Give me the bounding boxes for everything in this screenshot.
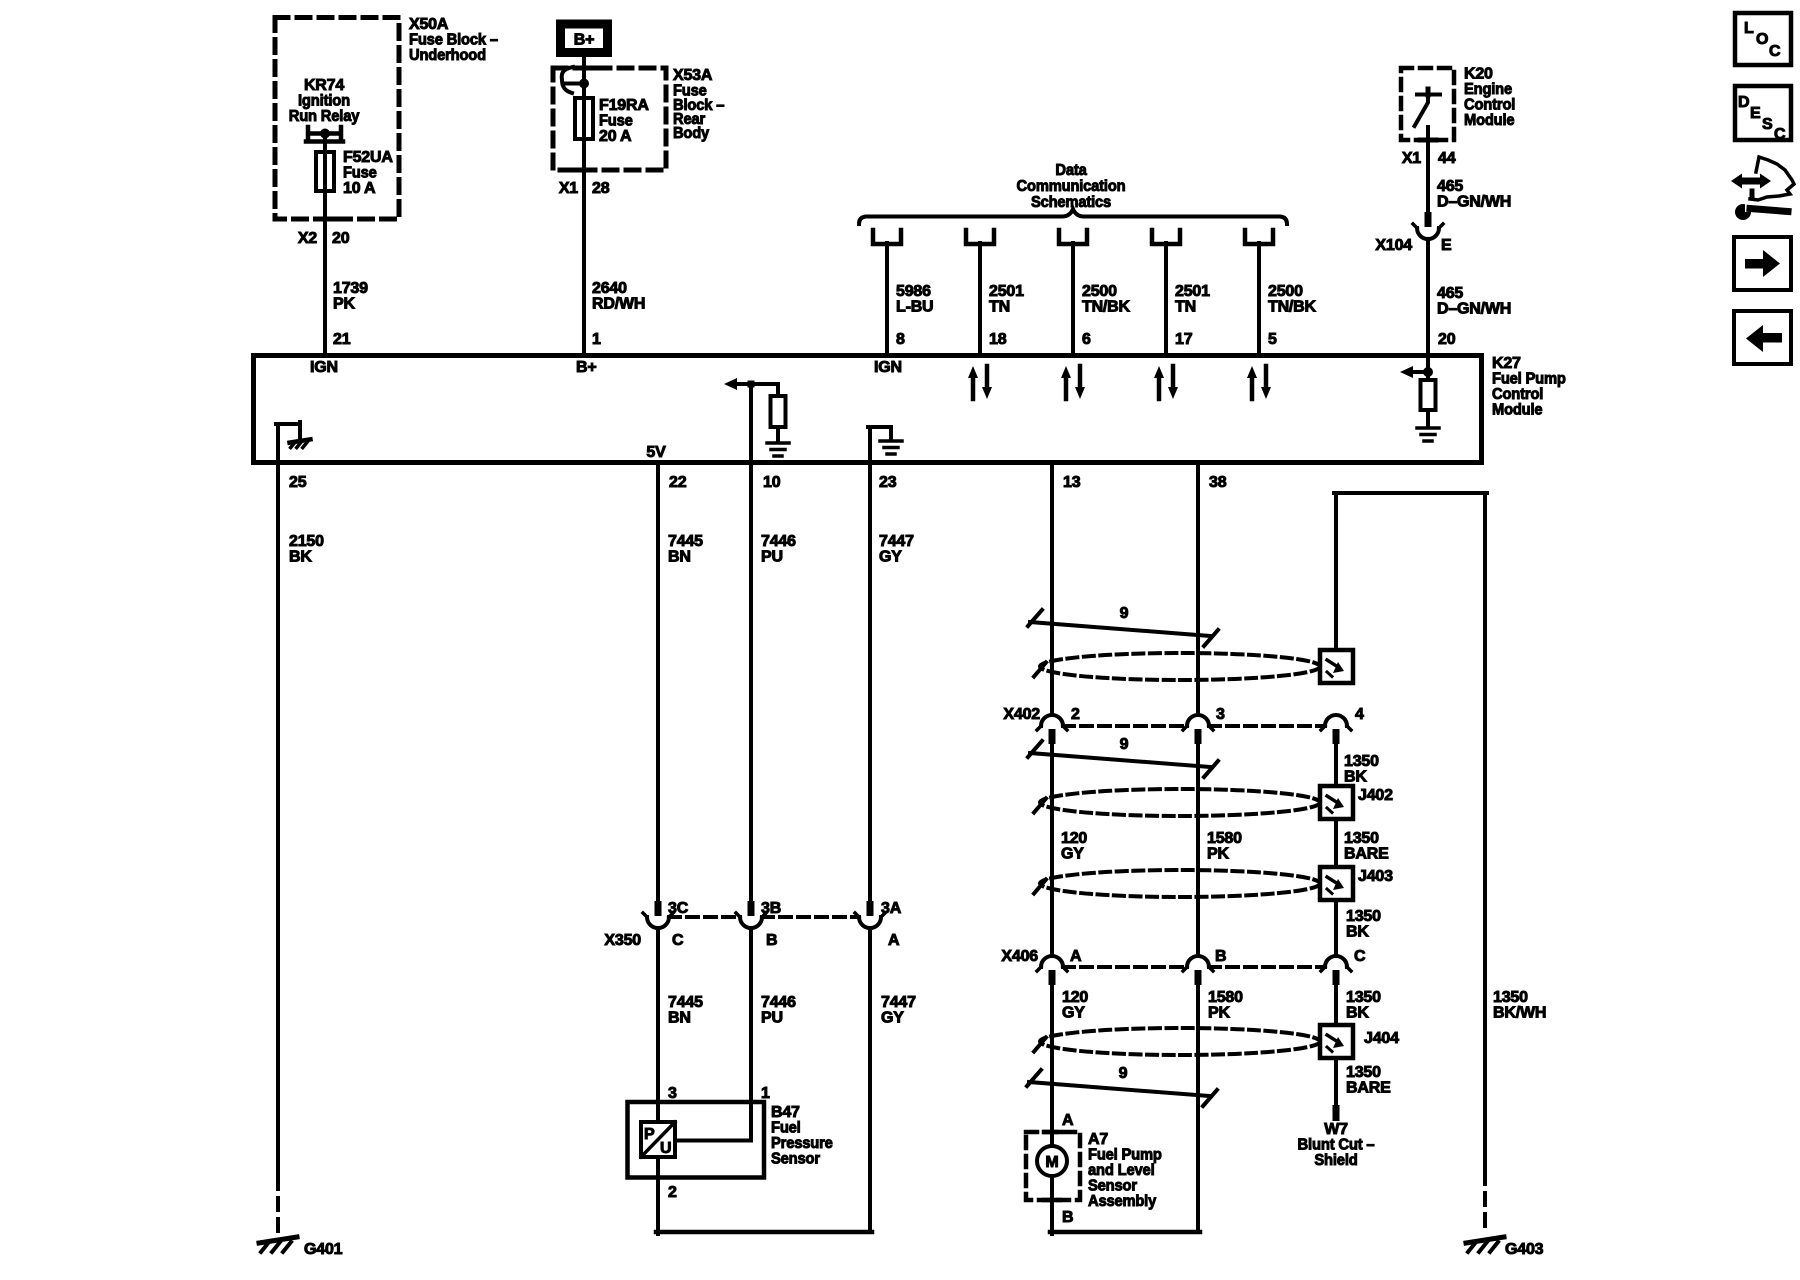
svg-text:Ignition: Ignition — [298, 93, 350, 110]
svg-text:1350: 1350 — [1344, 753, 1379, 770]
svg-text:Engine: Engine — [1464, 81, 1512, 98]
svg-text:1739: 1739 — [333, 280, 368, 297]
svg-text:Run Relay: Run Relay — [289, 108, 360, 125]
svg-text:Sensor: Sensor — [1088, 1178, 1137, 1195]
svg-text:GY: GY — [1062, 1005, 1085, 1022]
svg-text:C: C — [1354, 948, 1366, 965]
svg-text:18: 18 — [989, 331, 1007, 348]
svg-text:G403: G403 — [1505, 1241, 1544, 1258]
svg-text:L-BU: L-BU — [896, 299, 933, 316]
svg-text:120: 120 — [1062, 989, 1088, 1006]
svg-text:BK: BK — [1346, 924, 1369, 941]
svg-text:3: 3 — [1216, 706, 1225, 723]
svg-text:J402: J402 — [1358, 787, 1393, 804]
svg-text:X402: X402 — [1003, 706, 1040, 723]
svg-text:X1: X1 — [1402, 150, 1421, 167]
svg-text:10 A: 10 A — [343, 180, 376, 197]
svg-text:7447: 7447 — [879, 533, 914, 550]
svg-text:22: 22 — [669, 474, 687, 491]
svg-text:7445: 7445 — [668, 533, 703, 550]
svg-text:1580: 1580 — [1207, 830, 1242, 847]
svg-text:10: 10 — [763, 474, 781, 491]
svg-text:2501: 2501 — [989, 283, 1024, 300]
svg-text:2500: 2500 — [1268, 283, 1303, 300]
svg-text:17: 17 — [1175, 331, 1193, 348]
svg-text:Control: Control — [1492, 386, 1543, 403]
svg-text:B+: B+ — [574, 32, 595, 49]
svg-text:2: 2 — [668, 1184, 677, 1201]
svg-text:X406: X406 — [1001, 948, 1038, 965]
svg-text:O: O — [1756, 31, 1768, 48]
svg-text:28: 28 — [592, 180, 610, 197]
svg-text:38: 38 — [1209, 474, 1227, 491]
svg-text:7445: 7445 — [668, 994, 703, 1011]
svg-text:20: 20 — [332, 230, 350, 247]
svg-text:4: 4 — [1355, 706, 1364, 723]
svg-text:PK: PK — [1207, 846, 1229, 863]
svg-text:13: 13 — [1063, 474, 1081, 491]
svg-text:X2: X2 — [298, 230, 317, 247]
svg-text:6: 6 — [1082, 331, 1091, 348]
svg-text:7446: 7446 — [761, 533, 796, 550]
svg-text:1: 1 — [761, 1085, 770, 1102]
svg-text:F52UA: F52UA — [343, 149, 393, 166]
svg-text:A: A — [1070, 948, 1082, 965]
svg-text:465: 465 — [1437, 178, 1463, 195]
svg-text:J403: J403 — [1358, 868, 1393, 885]
svg-text:TN: TN — [989, 299, 1010, 316]
svg-text:M: M — [1045, 1154, 1058, 1171]
svg-text:25: 25 — [289, 474, 307, 491]
svg-text:GY: GY — [879, 549, 902, 566]
svg-text:IGN: IGN — [874, 359, 902, 376]
svg-text:A: A — [888, 932, 900, 949]
svg-text:RD/WH: RD/WH — [592, 296, 645, 313]
svg-text:X53A: X53A — [673, 67, 713, 84]
svg-text:Communication: Communication — [1017, 178, 1126, 195]
svg-text:KR74: KR74 — [304, 77, 344, 94]
svg-text:44: 44 — [1438, 150, 1456, 167]
svg-text:BN: BN — [668, 1010, 691, 1027]
svg-text:E: E — [1441, 237, 1452, 254]
svg-text:B47: B47 — [771, 1104, 800, 1121]
svg-text:GY: GY — [1061, 846, 1084, 863]
svg-text:X50A: X50A — [409, 16, 449, 33]
svg-text:B: B — [1215, 948, 1226, 965]
svg-text:W7: W7 — [1324, 1121, 1348, 1138]
svg-text:21: 21 — [333, 331, 351, 348]
svg-text:Module: Module — [1464, 112, 1515, 129]
svg-text:2150: 2150 — [289, 533, 324, 550]
svg-text:F19RA: F19RA — [599, 97, 649, 114]
svg-text:TN/BK: TN/BK — [1082, 299, 1131, 316]
svg-text:K27: K27 — [1492, 355, 1521, 372]
svg-text:Fuel: Fuel — [771, 1120, 801, 1137]
svg-text:U: U — [660, 1140, 671, 1157]
svg-text:D–GN/WH: D–GN/WH — [1437, 301, 1511, 318]
svg-text:1350: 1350 — [1346, 1064, 1381, 1081]
svg-text:BK: BK — [1344, 769, 1367, 786]
svg-text:8: 8 — [896, 331, 905, 348]
svg-text:Body: Body — [673, 125, 709, 142]
svg-text:Pressure: Pressure — [771, 1135, 833, 1152]
svg-text:BARE: BARE — [1344, 846, 1389, 863]
svg-text:X350: X350 — [604, 932, 641, 949]
svg-text:Control: Control — [1464, 97, 1515, 114]
svg-text:E: E — [1750, 105, 1761, 122]
svg-text:BK: BK — [1346, 1005, 1369, 1022]
svg-text:BK/WH: BK/WH — [1493, 1005, 1546, 1022]
svg-text:C: C — [1769, 43, 1781, 60]
svg-text:Module: Module — [1492, 402, 1543, 419]
svg-text:5V: 5V — [646, 444, 666, 461]
svg-text:D–GN/WH: D–GN/WH — [1437, 194, 1511, 211]
svg-text:23: 23 — [879, 474, 897, 491]
svg-text:C: C — [672, 932, 684, 949]
svg-text:465: 465 — [1437, 285, 1463, 302]
svg-text:3C: 3C — [668, 900, 689, 917]
svg-text:7447: 7447 — [881, 994, 916, 1011]
svg-text:G401: G401 — [304, 1241, 343, 1258]
svg-text:B+: B+ — [576, 359, 597, 376]
svg-text:2: 2 — [1071, 706, 1080, 723]
svg-text:BN: BN — [668, 549, 691, 566]
svg-text:TN: TN — [1175, 299, 1196, 316]
svg-text:1350: 1350 — [1493, 989, 1528, 1006]
svg-text:A: A — [1062, 1112, 1074, 1129]
svg-text:S: S — [1762, 116, 1773, 133]
svg-text:9: 9 — [1119, 1065, 1128, 1082]
svg-text:Fuse Block –: Fuse Block – — [409, 32, 498, 49]
svg-text:1: 1 — [592, 331, 601, 348]
svg-text:D: D — [1738, 94, 1749, 111]
svg-text:X104: X104 — [1375, 237, 1412, 254]
svg-text:Underhood: Underhood — [409, 47, 486, 64]
svg-text:C: C — [1774, 126, 1786, 143]
svg-text:2501: 2501 — [1175, 283, 1210, 300]
svg-text:Shield: Shield — [1314, 1152, 1357, 1169]
svg-text:7446: 7446 — [761, 994, 796, 1011]
svg-text:1350: 1350 — [1346, 989, 1381, 1006]
svg-text:IGN: IGN — [310, 359, 338, 376]
svg-text:BK: BK — [289, 549, 312, 566]
svg-text:Assembly: Assembly — [1088, 1193, 1156, 1210]
svg-text:1350: 1350 — [1344, 830, 1379, 847]
svg-text:BARE: BARE — [1346, 1080, 1391, 1097]
svg-text:Data: Data — [1055, 162, 1086, 179]
svg-text:A7: A7 — [1088, 1131, 1108, 1148]
svg-text:2640: 2640 — [592, 280, 627, 297]
svg-text:J404: J404 — [1364, 1030, 1399, 1047]
svg-text:GY: GY — [881, 1010, 904, 1027]
svg-text:PK: PK — [1208, 1005, 1230, 1022]
svg-text:Fuse: Fuse — [599, 113, 633, 130]
svg-text:PK: PK — [333, 296, 355, 313]
svg-text:B: B — [1062, 1209, 1073, 1226]
svg-text:P: P — [644, 1126, 655, 1143]
svg-text:9: 9 — [1120, 605, 1129, 622]
svg-text:2500: 2500 — [1082, 283, 1117, 300]
svg-text:B: B — [766, 932, 777, 949]
svg-text:Blunt Cut –: Blunt Cut – — [1298, 1137, 1375, 1154]
svg-text:20: 20 — [1438, 331, 1456, 348]
svg-text:PU: PU — [761, 1010, 783, 1027]
svg-text:and Level: and Level — [1088, 1162, 1155, 1179]
svg-text:Fuse: Fuse — [343, 165, 377, 182]
svg-text:1350: 1350 — [1346, 908, 1381, 925]
svg-text:1580: 1580 — [1208, 989, 1243, 1006]
svg-text:Fuel Pump: Fuel Pump — [1492, 371, 1566, 388]
svg-text:20 A: 20 A — [599, 128, 632, 145]
svg-text:Fuel Pump: Fuel Pump — [1088, 1147, 1162, 1164]
svg-text:L: L — [1744, 20, 1754, 37]
svg-text:K20: K20 — [1464, 66, 1493, 83]
svg-text:PU: PU — [761, 549, 783, 566]
svg-text:Sensor: Sensor — [771, 1151, 820, 1168]
svg-text:5986: 5986 — [896, 283, 931, 300]
svg-text:120: 120 — [1061, 830, 1087, 847]
svg-text:9: 9 — [1120, 736, 1129, 753]
svg-text:TN/BK: TN/BK — [1268, 299, 1317, 316]
svg-text:3: 3 — [668, 1085, 677, 1102]
svg-text:3A: 3A — [881, 900, 902, 917]
svg-text:3B: 3B — [761, 900, 781, 917]
svg-text:5: 5 — [1268, 331, 1277, 348]
svg-text:X1: X1 — [559, 180, 578, 197]
